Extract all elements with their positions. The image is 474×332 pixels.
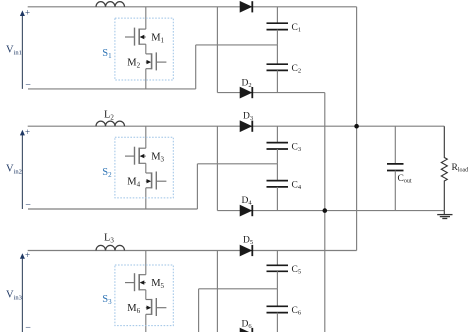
svg-text:M4: M4 (127, 176, 140, 188)
voltage source V_in1 arrow (20, 10, 25, 89)
svg-text:S2: S2 (102, 167, 112, 179)
minus terminal stage 2 (25, 200, 31, 211)
dashed switch-cell box S3 (115, 265, 173, 326)
svg-text:+: + (25, 250, 30, 260)
label S2 (102, 167, 112, 179)
dashed switch-cell box S1 (115, 18, 173, 80)
wire midpoint riser stage 2 (196, 164, 198, 209)
wire diode bus stage 1 (216, 7, 218, 93)
transistor M1 (125, 28, 146, 46)
wire source of M2 to bottom rail (145, 69, 147, 89)
capacitor C6 (267, 289, 289, 332)
capacitor C1 (267, 7, 289, 45)
wire capacitor midpoint rail stage 2 (197, 163, 277, 165)
junction node output positive (354, 124, 359, 129)
svg-text:C4: C4 (292, 180, 302, 191)
diode D1 (240, 1, 252, 12)
svg-text:M5: M5 (151, 278, 164, 290)
transistor M5 (125, 273, 146, 291)
voltage source V_in2 arrow (20, 130, 25, 209)
wire between M5 and M6 (145, 290, 147, 300)
wire stage 1 bottom rail (28, 88, 196, 90)
inductor L2 (96, 121, 125, 126)
wire stage 3 top rail (28, 250, 357, 252)
label S1 (102, 48, 112, 60)
junction node output negative (323, 208, 328, 213)
label V_in2 (6, 163, 22, 175)
label M4 (127, 176, 140, 188)
wire stage 2 bottom rail (28, 208, 197, 210)
svg-text:M2: M2 (127, 57, 140, 69)
svg-text:Cout: Cout (398, 174, 412, 185)
svg-text:C1: C1 (292, 23, 302, 34)
wire switch leg stage 2 (drain of M3) (145, 126, 147, 148)
label C4 (292, 180, 302, 191)
label C5 (292, 265, 302, 276)
diode D5 (240, 245, 252, 256)
wire diode bus stage 2 (216, 126, 218, 210)
capacitor C_out (387, 126, 404, 210)
inductor L1 (96, 2, 125, 7)
plus terminal stage 1 (25, 7, 30, 17)
wire bus D2/D4/D6 cathodes (vertical) (324, 93, 326, 332)
wire between M1 and M2 (145, 44, 147, 54)
inductor L3 (96, 245, 125, 250)
wire midpoint riser stage 3 (198, 289, 200, 332)
diode D6 (240, 328, 252, 332)
svg-text:M6: M6 (127, 303, 140, 315)
transistor M3 (125, 147, 146, 165)
wire bus D1/D3/D5 cathodes (vertical) (356, 7, 358, 251)
wire D2 anode/cathode rail (217, 92, 324, 94)
plus terminal stage 2 (25, 127, 30, 137)
label C_out (398, 174, 412, 185)
label C1 (292, 23, 302, 34)
diode D3 (240, 121, 252, 132)
wire source of M6 to bottom rail (145, 314, 147, 332)
wire capacitor midpoint rail stage 1 (196, 44, 278, 46)
transistor M2 (146, 52, 167, 70)
wire stage 1 top rail (28, 6, 357, 8)
label V_in1 (6, 44, 22, 56)
dashed switch-cell box S2 (115, 137, 173, 198)
svg-text:−: − (25, 80, 31, 91)
diode D2 (240, 87, 252, 98)
svg-text:C2: C2 (292, 64, 302, 75)
wire diode bus stage 3 (216, 251, 218, 332)
transistor M4 (146, 172, 167, 190)
label C6 (292, 306, 302, 317)
svg-text:M3: M3 (151, 152, 164, 164)
svg-text:+: + (25, 127, 30, 137)
capacitor C5 (267, 251, 289, 289)
svg-text:Vin1: Vin1 (6, 44, 22, 56)
wire D4 anode/cathode rail (217, 210, 444, 212)
transistor M6 (146, 298, 167, 316)
label D3 (243, 112, 253, 123)
label L2 (104, 110, 114, 122)
wire switch leg stage 1 (drain of M1) (145, 7, 147, 29)
svg-text:M1: M1 (151, 33, 164, 45)
voltage source V_in3 arrow (20, 253, 25, 332)
svg-text:L3: L3 (104, 233, 114, 245)
capacitor C4 (267, 164, 289, 211)
wire stage 2 top rail (28, 125, 445, 127)
svg-text:C3: C3 (292, 142, 302, 153)
svg-text:Vin2: Vin2 (6, 163, 22, 175)
label M3 (151, 152, 164, 164)
ground (437, 211, 452, 219)
svg-text:Vin3: Vin3 (6, 290, 22, 302)
svg-text:D6: D6 (242, 320, 253, 331)
svg-text:D4: D4 (242, 196, 253, 207)
svg-text:Rload: Rload (452, 163, 469, 174)
svg-text:C6: C6 (292, 306, 302, 317)
svg-text:L2: L2 (104, 110, 114, 122)
resistor R_load (441, 126, 447, 210)
label L3 (104, 233, 114, 245)
plus terminal stage 3 (25, 250, 30, 260)
wire capacitor midpoint rail stage 3 (199, 288, 278, 290)
svg-text:S3: S3 (102, 294, 112, 306)
diode D4 (240, 205, 252, 216)
svg-text:C5: C5 (292, 265, 302, 276)
capacitor C2 (267, 45, 289, 93)
svg-text:−: − (25, 323, 31, 332)
svg-text:D3: D3 (243, 112, 253, 123)
wire switch leg stage 3 (drain of M5) (145, 251, 147, 275)
label C2 (292, 64, 302, 75)
svg-text:S1: S1 (102, 48, 112, 60)
label M2 (127, 57, 140, 69)
label M5 (151, 278, 164, 290)
minus terminal stage 3 (25, 323, 31, 332)
label D2 (242, 79, 252, 90)
capacitor C3 (267, 126, 289, 164)
label S3 (102, 294, 112, 306)
label M6 (127, 303, 140, 315)
svg-text:D5: D5 (243, 236, 253, 247)
svg-text:D2: D2 (242, 79, 252, 90)
wire midpoint riser stage 1 (195, 45, 197, 89)
label M1 (151, 33, 164, 45)
label D6 (242, 320, 253, 331)
label D4 (242, 196, 253, 207)
label D5 (243, 236, 253, 247)
minus terminal stage 1 (25, 80, 31, 91)
svg-text:+: + (25, 7, 30, 17)
wire between M3 and M4 (145, 163, 147, 173)
label V_in3 (6, 290, 22, 302)
wire source of M4 to bottom rail (145, 188, 147, 209)
label R_load (452, 163, 469, 174)
label C3 (292, 142, 302, 153)
